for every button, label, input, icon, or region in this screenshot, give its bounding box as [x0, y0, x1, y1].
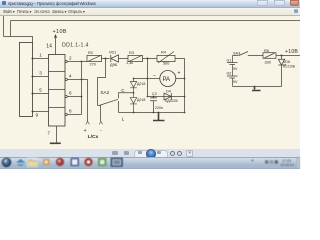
switch SA2 lever	[98, 99, 119, 105]
wire tap pin3	[33, 76, 49, 78]
red ball icon	[56, 158, 64, 166]
show desktop	[297, 158, 301, 169]
junction bus pin4	[81, 79, 83, 81]
wire pin2 to R2	[67, 61, 87, 63]
probe terminal minus	[99, 121, 103, 124]
wire bottom rail	[119, 112, 185, 114]
wire pin8	[67, 114, 81, 116]
junction C2 bottom rail	[153, 112, 155, 114]
wire header horizontal	[4, 37, 33, 43]
junction diode column C branch	[133, 92, 135, 94]
power +10V arrow left	[54, 35, 56, 44]
diode VD1	[111, 55, 119, 62]
resistor R6	[263, 53, 276, 59]
active window button	[111, 158, 124, 168]
junction SA1 tap pin3	[32, 76, 34, 78]
junction bus pin6	[81, 96, 83, 98]
play button	[146, 149, 155, 158]
schematic drawing	[0, 0, 300, 168]
junction C2 top	[153, 96, 155, 98]
resistor R3	[128, 55, 143, 61]
wire SA2 throw C up	[119, 93, 134, 99]
rotate buttons	[170, 151, 176, 157]
inverter bubbles	[65, 60, 67, 62]
wire diode column top to PA minus	[134, 78, 160, 80]
wire node A jog down to SA2 pivot	[98, 59, 106, 106]
magnifier button	[112, 151, 119, 155]
green icon	[98, 158, 107, 167]
start orb	[2, 158, 12, 168]
wire pin7 stub	[56, 126, 58, 143]
wire PA plus stub	[176, 78, 185, 80]
diode VD4	[164, 93, 172, 100]
wire bus to plus probe	[82, 80, 88, 122]
delete button	[186, 150, 193, 157]
junction shunt right	[184, 96, 186, 98]
junction diode column top	[133, 78, 135, 80]
junction rail right end	[184, 112, 186, 114]
switch block SA1	[20, 43, 33, 117]
wire tap pin1	[33, 58, 49, 60]
wire VD1 to R3	[119, 58, 129, 60]
wire pin4	[67, 79, 81, 81]
orange icon	[43, 159, 50, 166]
ie icon	[17, 158, 25, 166]
taskbar icons	[0, 0, 300, 168]
junction diode column rail	[133, 112, 135, 114]
wire R4 to right vertical	[175, 59, 185, 113]
wire R3 to node B	[143, 58, 158, 60]
size button	[124, 151, 129, 155]
svg-text:12.03.14: 12.03.14	[281, 163, 294, 167]
photo viewer toolbar pill	[134, 150, 168, 159]
node B junction	[147, 58, 149, 60]
junction SA1 tap pin1	[32, 58, 34, 60]
tray icons	[265, 160, 268, 163]
wire rail drop	[10, 21, 12, 37]
junction SA1 tap pin9	[32, 111, 34, 113]
wire tap pin9	[33, 111, 49, 113]
wire pin6	[67, 96, 81, 98]
wire node B down	[147, 59, 149, 97]
ground (pin7)	[50, 142, 61, 144]
wire R6 to +10V	[276, 55, 300, 57]
wire R2 to VD1	[102, 58, 110, 60]
wire pin14 stub	[55, 44, 57, 55]
switch SA3	[233, 52, 264, 56]
IC DD1 body (inverters DD1.1-DD1.4)	[49, 55, 66, 127]
capacitor C2	[150, 97, 157, 113]
diode VD3	[130, 98, 137, 113]
junction node B to PA minus	[147, 78, 149, 80]
resistor R4 trimmer	[157, 55, 175, 61]
wire top rail	[11, 20, 301, 22]
junction battery rail ground	[254, 86, 256, 88]
wire output bus	[81, 62, 83, 115]
zener VD6	[278, 56, 286, 87]
junction bus pin2	[81, 61, 83, 63]
ground (mid)	[153, 113, 165, 121]
battery G1 G2	[227, 56, 238, 87]
red ring icon	[84, 158, 92, 166]
ground (right)	[252, 87, 261, 91]
wire minus probe	[100, 106, 102, 122]
resistor R2	[87, 55, 102, 61]
node A junction	[105, 58, 107, 60]
ammeter PA1	[160, 71, 176, 87]
junction node B shunt row	[147, 96, 149, 98]
junction ground rail mid	[158, 112, 160, 114]
node C junction	[281, 55, 283, 57]
junction PA plus column	[184, 78, 186, 80]
wire battery bottom rail	[233, 86, 282, 88]
junction SA1 tap pin5	[32, 93, 34, 95]
wire SA2 throw L down	[118, 101, 120, 113]
wire tap pin5	[33, 93, 49, 95]
tray arrow	[251, 159, 254, 161]
folder icon (active)	[27, 157, 39, 167]
blue white icon	[71, 158, 80, 167]
diode VD2	[130, 79, 137, 98]
probe terminal plus	[86, 121, 90, 124]
wire shunt row	[148, 96, 185, 98]
wire from photo top edge	[3, 15, 5, 37]
